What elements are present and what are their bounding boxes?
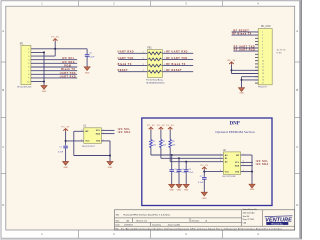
junction gnd pin16 xyxy=(240,79,242,81)
svg-text:8: 8 xyxy=(220,170,221,172)
ground (C2) xyxy=(84,67,90,71)
svg-text:4.7uF: 4.7uF xyxy=(198,182,204,184)
svg-text:I2C SCL: I2C SCL xyxy=(62,57,75,60)
wire U2 VSS xyxy=(241,170,252,174)
svg-text:RF_CON: RF_CON xyxy=(261,26,271,28)
wire J1 pin6 PGM xyxy=(31,65,77,69)
ground (U1 right) xyxy=(107,162,113,166)
svg-text:GND: GND xyxy=(42,91,47,93)
svg-text:Blank TX: Blank TX xyxy=(61,68,75,71)
wire C7 to gnd xyxy=(203,179,207,192)
wire U2 gnd drop xyxy=(250,172,254,185)
svg-text:11: 11 xyxy=(262,64,264,66)
junction pin1/VCC xyxy=(54,48,56,50)
wire cap C3 lower xyxy=(170,171,174,184)
wire FB1 right pin 5 xyxy=(162,70,193,74)
title block outline xyxy=(115,210,295,230)
svg-text:RF Blank TX: RF Blank TX xyxy=(232,33,252,36)
svg-text:0.1uF: 0.1uF xyxy=(174,172,178,174)
wire FB1 right pin 7 xyxy=(162,58,193,62)
wire cap C4 upper xyxy=(177,158,181,170)
wire gnd vertical xyxy=(240,77,244,88)
resistor R2 xyxy=(160,140,163,148)
svg-text:9: RX: 9: RX xyxy=(277,53,283,55)
svg-text:PC_3V: PC_3V xyxy=(200,165,208,167)
svg-text:SCL: SCL xyxy=(235,162,240,164)
power port PC_3V (pullup 3) xyxy=(168,127,173,129)
wire FB1 left pin 2 xyxy=(118,58,147,62)
junction U1 VCC xyxy=(65,140,67,142)
svg-text:PC_3V: PC_3V xyxy=(166,125,174,127)
svg-text:8: 8 xyxy=(164,52,165,54)
capacitor C3 xyxy=(169,168,174,172)
svg-text:SCL: SCL xyxy=(96,130,101,132)
wire U2 WP xyxy=(241,153,252,157)
wire gnd to pin15 xyxy=(242,75,259,79)
svg-text:5: 5 xyxy=(81,130,82,132)
wire to U1 VCC pin xyxy=(66,139,84,143)
svg-text:I2C SCL: I2C SCL xyxy=(118,128,131,131)
svg-text:3: 3 xyxy=(262,38,263,40)
ground (C5) xyxy=(183,184,189,188)
junction pin10 xyxy=(43,81,45,83)
power port PC_3V (U1) xyxy=(63,129,68,131)
capacitor C1 xyxy=(63,144,68,148)
ground (U1 left) xyxy=(63,162,69,166)
power port PC_3V (J1 section) xyxy=(53,39,58,41)
wire cap C5 upper xyxy=(184,162,188,170)
svg-text:VSS: VSS xyxy=(235,171,240,173)
svg-text:VCC: VCC xyxy=(225,171,230,173)
wire J1 pin1 to cap branch xyxy=(31,47,87,51)
wire cap branch down xyxy=(85,49,89,54)
wire U2 SDA xyxy=(241,164,253,168)
svg-text:I2C SCL: I2C SCL xyxy=(256,160,269,163)
page edge shadow right xyxy=(300,0,302,240)
wire FB1 left pin 1 xyxy=(118,51,147,55)
svg-text:0.1uF: 0.1uF xyxy=(89,57,95,59)
wire J1 pin2 to gnd bus xyxy=(31,51,44,55)
svg-text:GND: GND xyxy=(108,167,113,169)
svg-text:DF11-10DP-2DS: DF11-10DP-2DS xyxy=(17,86,32,88)
svg-text:RF UART TXD: RF UART TXD xyxy=(234,45,255,48)
capacitor C7 xyxy=(202,176,207,180)
svg-text:7: 7 xyxy=(164,58,165,60)
capacitor C2 xyxy=(85,53,90,57)
svg-text:RF UART RXD: RF UART RXD xyxy=(166,51,188,54)
wire pullup 3 upper xyxy=(168,130,172,140)
wire J1 pin5 I2C SDA xyxy=(31,62,77,66)
junction U2 WP/VSS xyxy=(251,171,253,173)
wire U1 supply vertical xyxy=(64,131,68,145)
wire U1 VSS to gnd xyxy=(101,139,110,143)
wire pullup 2 upper xyxy=(159,130,163,140)
wire FB1 right pin 8 xyxy=(162,51,193,55)
svg-text:1: 1 xyxy=(262,32,263,34)
IC U2 xyxy=(223,152,240,174)
wire J1 pin4 I2C SCL xyxy=(31,58,77,62)
svg-text:2: 2 xyxy=(143,58,144,60)
page edge shadow bottom xyxy=(0,239,302,240)
svg-text:PC_3V: PC_3V xyxy=(62,127,70,129)
svg-text:9: 9 xyxy=(262,57,263,59)
svg-text:GND: GND xyxy=(250,189,255,191)
svg-text:VSS: VSS xyxy=(96,141,101,143)
svg-text:VCC: VCC xyxy=(85,141,90,143)
svg-text:4: 4 xyxy=(81,139,82,141)
svg-text:I2C SDA: I2C SDA xyxy=(62,61,75,64)
svg-text:10: 10 xyxy=(262,60,264,62)
wire J1 pin7 Blank TX xyxy=(31,69,77,73)
wire VCC stem xyxy=(53,41,57,56)
power port PC_3V (pullup 1) xyxy=(149,127,154,129)
svg-text:RF Blank TX: RF Blank TX xyxy=(166,63,186,66)
svg-text:2: 2 xyxy=(220,157,221,159)
svg-text:8: 8 xyxy=(262,54,263,56)
zone tick marks xyxy=(77,1,79,6)
svg-text:24LC512T-I/OT: 24LC512T-I/OT xyxy=(82,146,96,148)
svg-text:Blank TX: Blank TX xyxy=(118,63,132,66)
wire gnd bus vertical xyxy=(42,52,46,85)
wire bus A1 xyxy=(161,157,224,161)
svg-text:7: 7 xyxy=(262,51,263,53)
svg-text:3: 3 xyxy=(143,64,144,66)
svg-text:0.1uF: 0.1uF xyxy=(189,172,193,174)
wire RF RESET to pin1 xyxy=(232,30,259,34)
svg-text:UART TXD: UART TXD xyxy=(118,57,134,60)
svg-text:R2: R2 xyxy=(163,141,165,143)
FB1 element row 1 xyxy=(148,52,161,55)
svg-text:File:: File: xyxy=(116,229,120,231)
svg-text:FH12-17S: FH12-17S xyxy=(258,87,267,89)
resistor R1 xyxy=(150,140,153,148)
svg-text:PC_3V: PC_3V xyxy=(51,37,59,39)
svg-text:GND: GND xyxy=(169,190,174,192)
FB1 element row 3 xyxy=(148,64,161,67)
wire RF_3V down xyxy=(230,65,234,74)
capacitor C5 xyxy=(184,168,189,172)
ground (C7) xyxy=(201,192,207,196)
svg-text:2: 2 xyxy=(262,35,263,37)
wire U1 WP loop xyxy=(74,130,84,134)
wire bus A2 xyxy=(170,160,223,164)
svg-text:I2C SDA: I2C SDA xyxy=(118,131,131,134)
wire RF Blank TX to pin2 xyxy=(232,33,259,37)
svg-text:1/29/2017: 1/29/2017 xyxy=(124,224,134,226)
wire pullup 1 upper xyxy=(149,130,153,140)
power port PC_3V (U2) xyxy=(202,167,207,169)
wire RF_3V to pin14 xyxy=(232,72,259,76)
ground (RF_CON) xyxy=(239,88,245,92)
svg-text:C5: C5 xyxy=(189,169,191,171)
junction pin2 xyxy=(43,51,45,53)
svg-text:Revision: Revision xyxy=(192,220,200,222)
svg-text:R1: R1 xyxy=(153,141,155,143)
svg-text:GND: GND xyxy=(177,190,182,192)
junction VSS gnd tie xyxy=(109,154,111,156)
DNP optional section box xyxy=(142,118,272,206)
wire to U2 VCC pin xyxy=(204,170,223,174)
ground (C3) xyxy=(169,184,175,188)
svg-text:C4: C4 xyxy=(182,169,184,171)
FB1 element row 4 xyxy=(148,70,161,73)
svg-text:1: 1 xyxy=(220,154,221,156)
svg-text:UART RXD: UART RXD xyxy=(60,75,76,78)
svg-text:GND: GND xyxy=(239,93,244,95)
ground (C4) xyxy=(176,184,182,188)
junction cap C4 tap xyxy=(178,157,180,159)
wire bus A0 xyxy=(151,153,224,157)
svg-text:17: 17 xyxy=(262,83,264,85)
svg-text:Research Inc.: Research Inc. xyxy=(271,223,283,225)
power port PC_3V (pullup 2) xyxy=(159,127,164,129)
wire J1 pin10 to gnd bus xyxy=(31,80,44,84)
wire U1 SDA xyxy=(101,132,114,136)
FB1 element row 2 xyxy=(148,58,161,61)
svg-text:4: 4 xyxy=(262,41,263,43)
wire U1 SCL xyxy=(101,129,114,133)
wire cap C5 lower xyxy=(184,171,188,184)
wire C1 to gnd node xyxy=(64,148,68,162)
svg-text:GND: GND xyxy=(202,198,207,200)
svg-text:RF UART RXD: RF UART RXD xyxy=(234,49,256,52)
logo VENTURE Research Inc. xyxy=(265,216,293,226)
svg-text:12: 12 xyxy=(262,67,264,69)
svg-text:16: TX On: 16: TX On xyxy=(277,50,286,52)
svg-text:13: 13 xyxy=(262,70,264,72)
svg-text:16: 16 xyxy=(262,80,264,82)
svg-text:PGM: PGM xyxy=(64,65,71,68)
svg-text:Drawn by: Drawn by xyxy=(152,224,160,226)
svg-text:24LC512T-I/SN: 24LC512T-I/SN xyxy=(222,176,236,178)
svg-text:RF RESET: RF RESET xyxy=(233,29,249,32)
svg-text:RF RESET: RF RESET xyxy=(166,69,182,72)
resistor R3 xyxy=(169,140,172,148)
connector J1 xyxy=(21,46,31,85)
wire cap C4 lower xyxy=(177,171,181,184)
wire U2 SCL xyxy=(241,161,253,165)
RF_CON pin stubs xyxy=(255,30,258,33)
svg-text:1: 1 xyxy=(143,52,144,54)
svg-text:UART TXD: UART TXD xyxy=(60,72,76,75)
wire pullup 1 lower xyxy=(149,148,153,156)
wire cap C3 upper xyxy=(170,155,174,170)
svg-text:4: 4 xyxy=(143,70,144,72)
wire pullup 3 lower xyxy=(168,148,172,162)
wire RF UART TXD to pin6 xyxy=(234,46,259,50)
wire U2 supply vertical xyxy=(203,170,207,177)
wire J1 pin9 UART RXD xyxy=(31,76,77,80)
svg-text:6: 6 xyxy=(164,64,165,66)
svg-text:14: 14 xyxy=(262,73,264,75)
svg-text:GND: GND xyxy=(63,167,68,169)
connector RF_CON xyxy=(258,29,272,85)
svg-text:RF UART TXD: RF UART TXD xyxy=(166,57,187,60)
svg-text:RESET: RESET xyxy=(118,69,129,72)
svg-text:3: 3 xyxy=(220,160,221,162)
wire C2 to ground xyxy=(85,56,89,66)
svg-text:PC_3V: PC_3V xyxy=(147,125,155,127)
svg-text:GND: GND xyxy=(85,72,90,74)
wire gnd to pin16 xyxy=(242,78,259,82)
svg-text:5: 5 xyxy=(262,44,263,46)
ferrite bead array FB1 xyxy=(147,50,162,78)
wire J1 pin8 UART TXD xyxy=(31,72,77,76)
ground (U2) xyxy=(249,184,255,188)
junction cap C3 tap xyxy=(171,154,173,156)
wire RF UART RXD to pin7 xyxy=(234,49,259,53)
svg-text:DNP: DNP xyxy=(230,122,240,127)
svg-text:C3: C3 xyxy=(174,169,176,171)
svg-text:4.7uF: 4.7uF xyxy=(58,151,64,153)
svg-text:6: 6 xyxy=(262,48,263,50)
ground (J1) xyxy=(41,86,47,90)
svg-text:15: 15 xyxy=(262,76,264,78)
svg-text:Optional EEPROM Section: Optional EEPROM Section xyxy=(215,130,254,134)
junction U2 VCC xyxy=(203,171,205,173)
wire gnd tie horizontal xyxy=(74,154,110,158)
wire J1 pin3 to VCC bus xyxy=(31,54,55,58)
svg-text:RF_3V: RF_3V xyxy=(228,60,236,62)
power port RF_3V (RF_CON) xyxy=(229,62,234,64)
wire FB1 right pin 6 xyxy=(162,64,193,68)
title block row lines xyxy=(115,217,242,219)
svg-text:PC_3V: PC_3V xyxy=(157,125,165,127)
IC U1 xyxy=(84,128,102,144)
wire RF_3V to pin13 xyxy=(232,69,259,73)
svg-text:5: 5 xyxy=(164,70,165,72)
wire pullup 2 lower xyxy=(159,148,163,159)
svg-text:0.1uF: 0.1uF xyxy=(182,172,186,174)
svg-text:I2C SDA: I2C SDA xyxy=(256,163,269,166)
title block column lines xyxy=(241,210,243,226)
svg-text:UART RXD: UART RXD xyxy=(118,51,134,54)
wire FB1 left pin 4 xyxy=(118,70,147,74)
svg-text:FB1: FB1 xyxy=(147,48,152,50)
svg-text:R3: R3 xyxy=(172,141,174,143)
wire FB1 left pin 3 xyxy=(118,64,147,68)
junction RF_3V pin13 xyxy=(230,69,232,71)
capacitor C4 xyxy=(177,168,182,172)
junction cap C5 tap xyxy=(185,161,187,163)
svg-text:GND: GND xyxy=(184,190,189,192)
